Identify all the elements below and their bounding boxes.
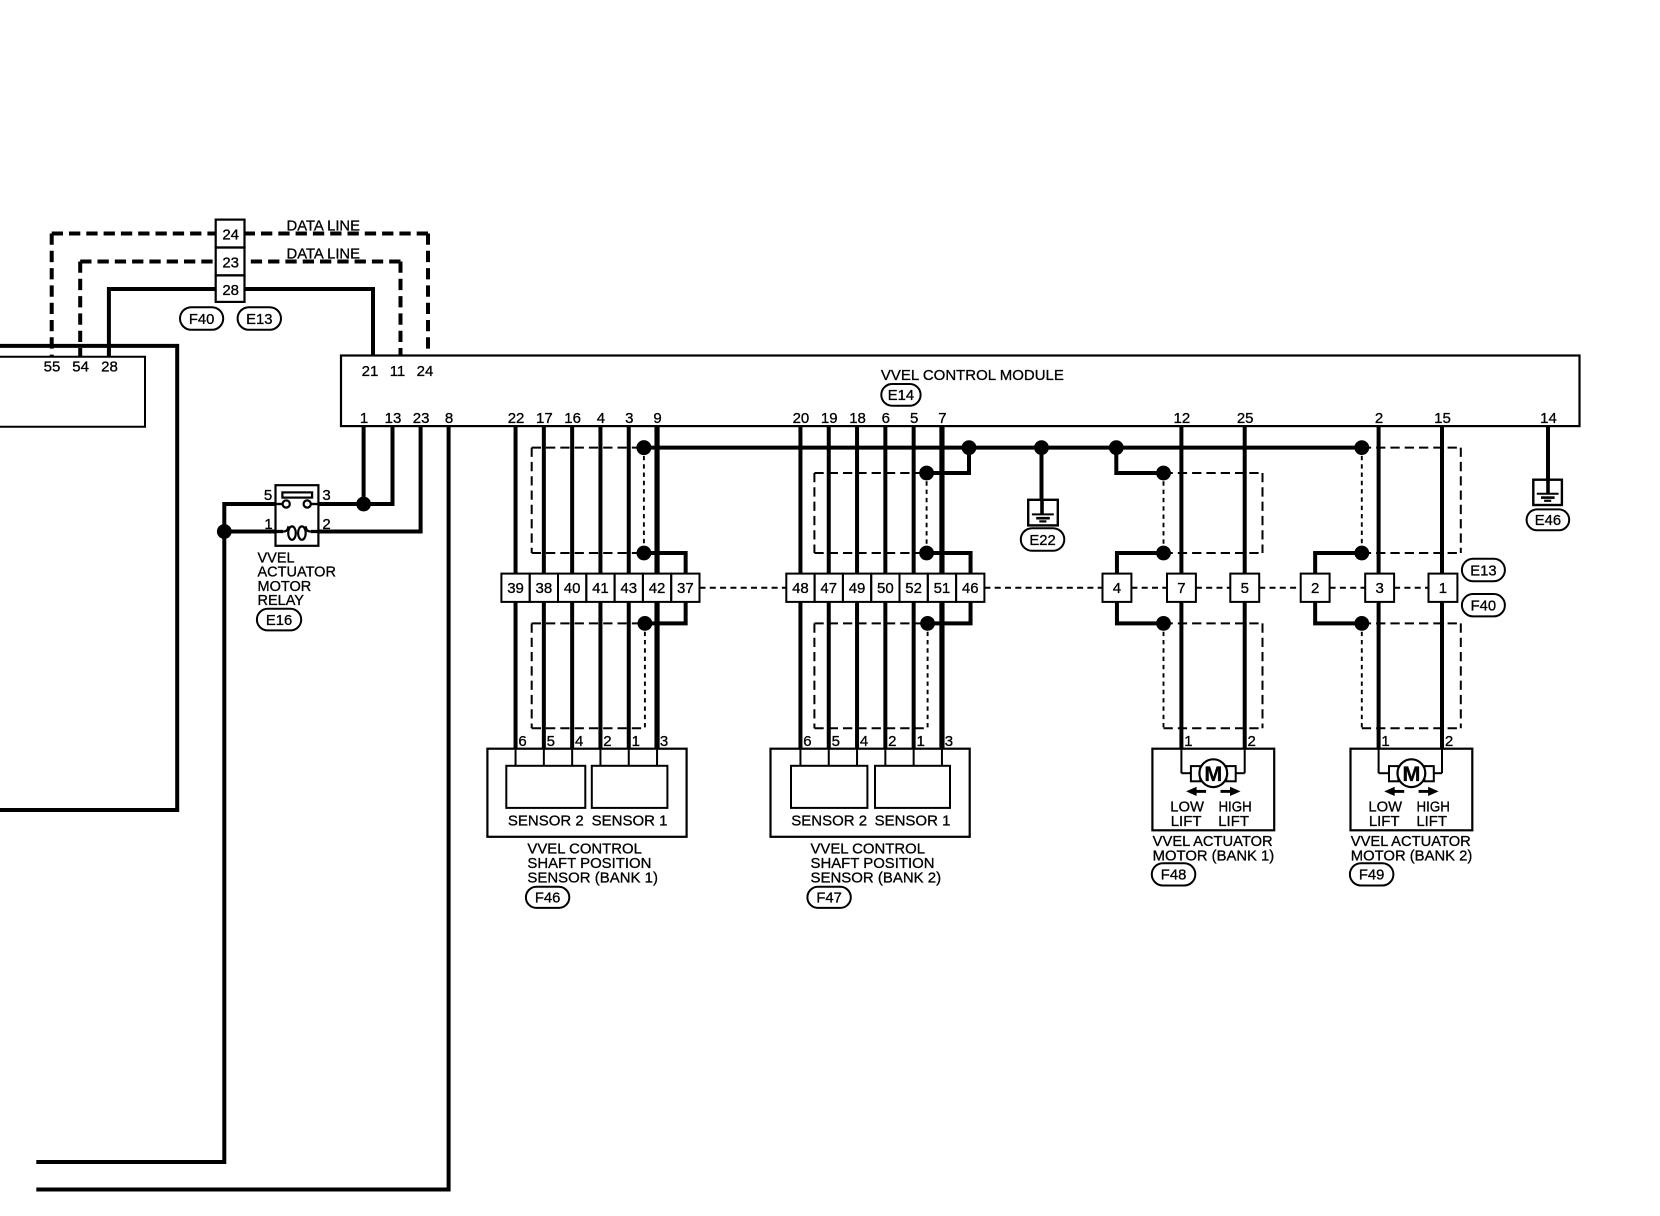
svg-text:42: 42 xyxy=(649,580,666,597)
relay contact terminal circle pin3 side xyxy=(304,500,311,507)
svg-text:3: 3 xyxy=(1375,580,1383,597)
node: shield upper dot (bank 1) xyxy=(1156,466,1171,481)
svg-text:14: 14 xyxy=(1540,410,1557,427)
svg-text:54: 54 xyxy=(72,358,89,375)
svg-text:DATA LINE: DATA LINE xyxy=(287,246,361,262)
wire: shield to connector shield pin (bank2) xyxy=(927,553,971,574)
svg-text:1: 1 xyxy=(1381,733,1389,750)
wire: shield to connector shield pin (bank1) xyxy=(644,553,686,574)
low-lift arrow (bank 1) xyxy=(1186,787,1197,796)
svg-text:F40: F40 xyxy=(189,312,215,328)
svg-text:1: 1 xyxy=(632,733,640,750)
svg-text:1: 1 xyxy=(264,516,272,533)
svg-text:23: 23 xyxy=(222,254,239,271)
svg-text:5: 5 xyxy=(264,487,272,504)
svg-text:5: 5 xyxy=(1241,580,1249,597)
svg-text:1: 1 xyxy=(1184,733,1192,750)
sensor inner box SENSOR 2 (bank 2) xyxy=(791,766,867,808)
VVEL CONTROL SHAFT POSITION SENSOR (bank 2) outer box xyxy=(771,749,970,837)
svg-text:SENSOR (BANK 2): SENSOR (BANK 2) xyxy=(811,869,942,886)
dashed link box 46 to box 4 xyxy=(984,587,1102,589)
wire: DATA LINE lower (pin 54 to connector 23, dashed) xyxy=(78,262,82,357)
wire: thick feed line top-left to lower-left xyxy=(0,346,177,810)
relay K1 VVEL ACTUATOR MOTOR RELAY box xyxy=(276,485,319,546)
wire: module pin 23 down, elbow to relay pin 2 xyxy=(318,426,420,531)
designator oval E13 (right) xyxy=(1462,559,1505,581)
VVEL ACTUATOR MOTOR (bank 1) box xyxy=(1152,749,1274,831)
svg-text:3: 3 xyxy=(322,487,330,504)
svg-text:5: 5 xyxy=(910,410,918,427)
motor connector boxes (bank 2) xyxy=(1301,574,1330,602)
lower shield dashed screen (bank1) xyxy=(532,622,645,624)
connector pass-through box 28 xyxy=(216,275,245,302)
svg-text:SENSOR 2: SENSOR 2 xyxy=(508,813,584,830)
node: lower shield dot (bank2) xyxy=(920,616,935,631)
svg-text:1: 1 xyxy=(360,410,368,427)
motor M1 symbol circle (bank 2) xyxy=(1378,749,1380,774)
wire: solid line pin 28 to connector 28 xyxy=(109,289,216,357)
connector pin box 37 xyxy=(671,574,699,602)
ground designator oval E22 xyxy=(1021,528,1065,551)
wire: relay pin 5 left then down to bottom-left rail xyxy=(36,504,275,1162)
svg-text:F47: F47 xyxy=(816,891,842,907)
connector pin box 38 xyxy=(530,574,558,602)
svg-text:F48: F48 xyxy=(1161,868,1187,884)
svg-text:28: 28 xyxy=(222,282,239,299)
wire: module pin 14 down to ground E46 xyxy=(1546,426,1550,480)
wire: module pin 13 down, elbow to relay pin 3 xyxy=(318,426,392,504)
wire: relay pin 1 to vertical rail xyxy=(224,530,275,534)
node: lower shield dot (bank1) xyxy=(638,616,653,631)
svg-text:M: M xyxy=(1204,762,1222,786)
node: shield lower dot (bank 1) xyxy=(1156,546,1171,561)
svg-text:48: 48 xyxy=(792,580,809,597)
connector pin box 43 xyxy=(615,574,643,602)
connector pin box 41 xyxy=(586,574,614,602)
svg-text:28: 28 xyxy=(101,358,118,375)
dashed links between motor connector boxes (bank 2) xyxy=(1330,587,1366,589)
wires: motor connector to motor (bank 1) xyxy=(1179,602,1183,749)
svg-text:4: 4 xyxy=(1113,580,1121,597)
svg-text:2: 2 xyxy=(888,733,896,750)
svg-text:6: 6 xyxy=(803,733,811,750)
svg-text:50: 50 xyxy=(877,580,894,597)
connector pin box 46 xyxy=(956,574,984,602)
svg-text:52: 52 xyxy=(905,580,922,597)
node: junction pin1/pin13 wire at relay pin 3 line xyxy=(356,497,371,512)
lower shield: connector to screen (bank2) xyxy=(928,602,971,624)
svg-text:3: 3 xyxy=(660,733,668,750)
node: shield lower dot (bank1) xyxy=(637,546,652,561)
svg-text:5: 5 xyxy=(547,733,555,750)
svg-text:7: 7 xyxy=(938,410,946,427)
svg-text:39: 39 xyxy=(507,580,524,597)
svg-text:13: 13 xyxy=(385,410,402,427)
sensor designator oval F47 xyxy=(807,887,850,908)
svg-text:LIFT: LIFT xyxy=(1171,813,1202,830)
svg-text:M: M xyxy=(1402,762,1420,786)
svg-text:15: 15 xyxy=(1434,410,1451,427)
connector pin box 49 xyxy=(843,574,871,602)
ground designator oval E46 xyxy=(1527,509,1570,530)
connector pin box 40 xyxy=(558,574,586,602)
svg-text:20: 20 xyxy=(793,410,810,427)
svg-text:46: 46 xyxy=(962,580,979,597)
upper shield dashed screen (bank 1) xyxy=(1164,472,1263,474)
relay fixed contact bar xyxy=(282,492,312,497)
upper shield (bank 1) xyxy=(1116,448,1163,473)
upper shield dashed screen (bank 2) xyxy=(1362,447,1461,449)
svg-text:2: 2 xyxy=(1375,410,1383,427)
svg-text:5: 5 xyxy=(832,733,840,750)
node: shield at bus (bank1) xyxy=(637,440,652,455)
sensor inner box SENSOR 2 (bank 1) xyxy=(506,766,585,808)
svg-text:1: 1 xyxy=(916,733,924,750)
wire: module pin 1 down to relay pin 3 node xyxy=(362,426,366,504)
svg-text:24: 24 xyxy=(417,363,434,380)
relay contact stub wires xyxy=(276,503,283,505)
VVEL ACTUATOR MOTOR (bank 2) box xyxy=(1351,749,1473,831)
svg-text:6: 6 xyxy=(882,410,890,427)
connector pin box 42 xyxy=(643,574,671,602)
svg-text:F40: F40 xyxy=(1471,599,1497,615)
ground symbol E46 xyxy=(1533,480,1562,505)
node: lower shield dot (bank 2) xyxy=(1354,616,1369,631)
svg-text:E22: E22 xyxy=(1029,533,1055,549)
connector designator oval F40 xyxy=(180,307,223,330)
dashed link bank1 row to bank2 row xyxy=(700,587,787,589)
svg-text:17: 17 xyxy=(536,410,553,427)
svg-text:9: 9 xyxy=(653,410,661,427)
svg-text:SENSOR 1: SENSOR 1 xyxy=(875,813,951,830)
sensor inner box SENSOR 1 (bank 1) xyxy=(592,766,668,808)
svg-text:3: 3 xyxy=(945,733,953,750)
wires: module to motor connector (bank 2) xyxy=(1377,426,1381,573)
VVEL CONTROL MODULE box xyxy=(341,356,1580,427)
svg-text:6: 6 xyxy=(518,733,526,750)
high-lift arrow (bank 1) xyxy=(1230,787,1241,796)
svg-text:MOTOR (BANK 2): MOTOR (BANK 2) xyxy=(1351,848,1473,864)
node: bus / E22 ground tap xyxy=(1034,440,1049,455)
wire: DATA LINE upper (pin 55 to connector 24, dashed) xyxy=(50,234,54,357)
wires: connector row to sensor box (bank2) xyxy=(798,602,802,749)
lower shield dashed screen (bank 1) xyxy=(1164,622,1263,624)
wire: module pin 8 down to bottom rail xyxy=(36,426,448,1189)
wires: connector row to sensor box (bank1) xyxy=(514,602,518,749)
motor connector boxes (bank 1) xyxy=(1103,574,1132,602)
svg-text:SENSOR 2: SENSOR 2 xyxy=(791,813,867,830)
svg-text:DATA LINE: DATA LINE xyxy=(287,218,361,234)
node: bus / motor bank1 shield tap xyxy=(1109,440,1124,455)
connector pass-through box 24 xyxy=(216,220,245,248)
sensor designator oval F46 xyxy=(526,887,569,908)
svg-text:21: 21 xyxy=(362,363,379,380)
connector pin box 48 xyxy=(786,574,814,602)
VVEL CONTROL SHAFT POSITION SENSOR (bank 1) outer box xyxy=(487,749,686,837)
connector pin box 50 xyxy=(871,574,899,602)
svg-text:4: 4 xyxy=(860,733,868,750)
sensor inner stub wires (bank 2) xyxy=(799,749,801,766)
wire: shield to connector shield pin (bank 1) xyxy=(1117,553,1164,574)
upper shield dashed screen (bank1) xyxy=(532,447,644,449)
designator oval F40 (right) xyxy=(1462,594,1505,616)
connector pin box 52 xyxy=(900,574,928,602)
sensor inner box SENSOR 1 (bank 2) xyxy=(875,766,950,808)
svg-text:19: 19 xyxy=(821,410,838,427)
lower shield elbow (bank 1) xyxy=(1117,602,1164,624)
svg-text:18: 18 xyxy=(849,410,866,427)
svg-text:VVEL CONTROL MODULE: VVEL CONTROL MODULE xyxy=(881,367,1064,384)
svg-text:43: 43 xyxy=(620,580,637,597)
svg-text:12: 12 xyxy=(1174,410,1191,427)
svg-text:7: 7 xyxy=(1177,580,1185,597)
wires: module to connector row (bank2) xyxy=(798,426,802,573)
connector designator oval E13 xyxy=(238,307,281,330)
wire: bus to ground E22 xyxy=(1040,448,1044,501)
connector pin box 47 xyxy=(815,574,843,602)
lower shield dashed screen (bank2) xyxy=(814,622,927,624)
node: shield upper (bank2) xyxy=(919,466,934,481)
relay coil symbol xyxy=(276,530,284,533)
svg-text:51: 51 xyxy=(934,580,951,597)
svg-text:4: 4 xyxy=(597,410,605,427)
svg-text:1: 1 xyxy=(1439,580,1447,597)
svg-text:LIFT: LIFT xyxy=(1218,813,1249,830)
left component box (partial, off-canvas left) xyxy=(0,357,145,427)
wire: DATA LINE upper right (connector 24 to module pin 24, dashed) xyxy=(245,232,429,236)
svg-text:16: 16 xyxy=(564,410,581,427)
dashed link box 5 to box 2 xyxy=(1259,587,1301,589)
module designator oval E14 xyxy=(881,384,920,406)
svg-text:40: 40 xyxy=(564,580,581,597)
low-lift arrow (bank 2) xyxy=(1384,787,1395,796)
relay designator oval E16 xyxy=(257,609,301,631)
upper shield dashed screen (bank2) xyxy=(927,448,969,473)
motor M1 symbol circle (bank 1) xyxy=(1180,749,1182,774)
node: shield lower dot (bank 2) xyxy=(1354,546,1369,561)
svg-text:2: 2 xyxy=(1445,733,1453,750)
svg-text:3: 3 xyxy=(625,410,633,427)
svg-text:25: 25 xyxy=(1237,410,1254,427)
svg-text:49: 49 xyxy=(849,580,866,597)
svg-text:SENSOR (BANK 1): SENSOR (BANK 1) xyxy=(527,869,658,886)
connector pin box 51 xyxy=(928,574,956,602)
svg-text:F49: F49 xyxy=(1359,868,1385,884)
relay contact terminal circle pin5 side xyxy=(283,500,290,507)
svg-text:37: 37 xyxy=(677,580,694,597)
svg-text:E13: E13 xyxy=(246,312,272,328)
wire: shield ground bus xyxy=(644,446,1362,450)
svg-text:E16: E16 xyxy=(266,613,292,629)
svg-text:38: 38 xyxy=(536,580,553,597)
lower shield: connector to screen (bank1) xyxy=(645,602,686,624)
svg-text:23: 23 xyxy=(413,410,430,427)
node: junction relay pin1 wire / vertical rail xyxy=(217,524,232,539)
wires: module to motor connector (bank 1) xyxy=(1179,426,1183,573)
dashed links between motor connector boxes (bank 1) xyxy=(1131,587,1167,589)
svg-text:E14: E14 xyxy=(888,388,914,404)
wire: shield to connector shield pin (bank 2) xyxy=(1315,553,1362,574)
ground symbol E22 xyxy=(1028,500,1058,526)
node: lower shield dot (bank 1) xyxy=(1156,616,1171,631)
svg-text:4: 4 xyxy=(575,733,583,750)
sensor inner stub wires (bank 1) xyxy=(515,749,517,766)
wire: connector 28 to module pin 21 xyxy=(245,289,374,356)
svg-text:22: 22 xyxy=(508,410,525,427)
svg-text:47: 47 xyxy=(820,580,837,597)
high-lift arrow (bank 2) xyxy=(1428,787,1439,796)
motor designator oval F48 xyxy=(1152,863,1196,885)
svg-text:2: 2 xyxy=(603,733,611,750)
node: bus end / motor bank2 shield xyxy=(1354,440,1369,455)
svg-text:24: 24 xyxy=(222,227,239,244)
svg-text:RELAY: RELAY xyxy=(258,593,305,609)
svg-text:2: 2 xyxy=(322,516,330,533)
svg-text:LIFT: LIFT xyxy=(1369,813,1400,830)
svg-text:2: 2 xyxy=(1248,733,1256,750)
wires: module to connector row (bank1) xyxy=(514,426,518,573)
svg-text:E13: E13 xyxy=(1470,563,1496,579)
svg-text:SENSOR 1: SENSOR 1 xyxy=(592,813,668,830)
motor designator oval F49 xyxy=(1350,863,1394,885)
lower shield elbow (bank 2) xyxy=(1315,602,1362,624)
connector pin box 39 xyxy=(501,574,529,602)
node: bus / bank1 sensor shield xyxy=(637,440,652,455)
svg-text:F46: F46 xyxy=(535,891,561,907)
connector pass-through box 23 xyxy=(216,248,245,276)
node: bus / bank2 sensor shield tap xyxy=(962,440,977,455)
svg-text:8: 8 xyxy=(445,410,453,427)
wire: DATA LINE lower right (connector 23 to module pin 11, dashed) xyxy=(245,260,401,264)
svg-text:MOTOR (BANK 1): MOTOR (BANK 1) xyxy=(1153,848,1275,864)
wires: motor connector to motor (bank 2) xyxy=(1377,602,1381,749)
lower shield dashed screen (bank 2) xyxy=(1362,622,1461,624)
svg-text:E46: E46 xyxy=(1535,513,1561,529)
svg-text:55: 55 xyxy=(44,358,61,375)
svg-text:41: 41 xyxy=(592,580,609,597)
node: shield lower dot (bank2) xyxy=(919,546,934,561)
svg-text:LIFT: LIFT xyxy=(1416,813,1447,830)
svg-text:2: 2 xyxy=(1311,580,1319,597)
svg-text:11: 11 xyxy=(390,363,406,380)
